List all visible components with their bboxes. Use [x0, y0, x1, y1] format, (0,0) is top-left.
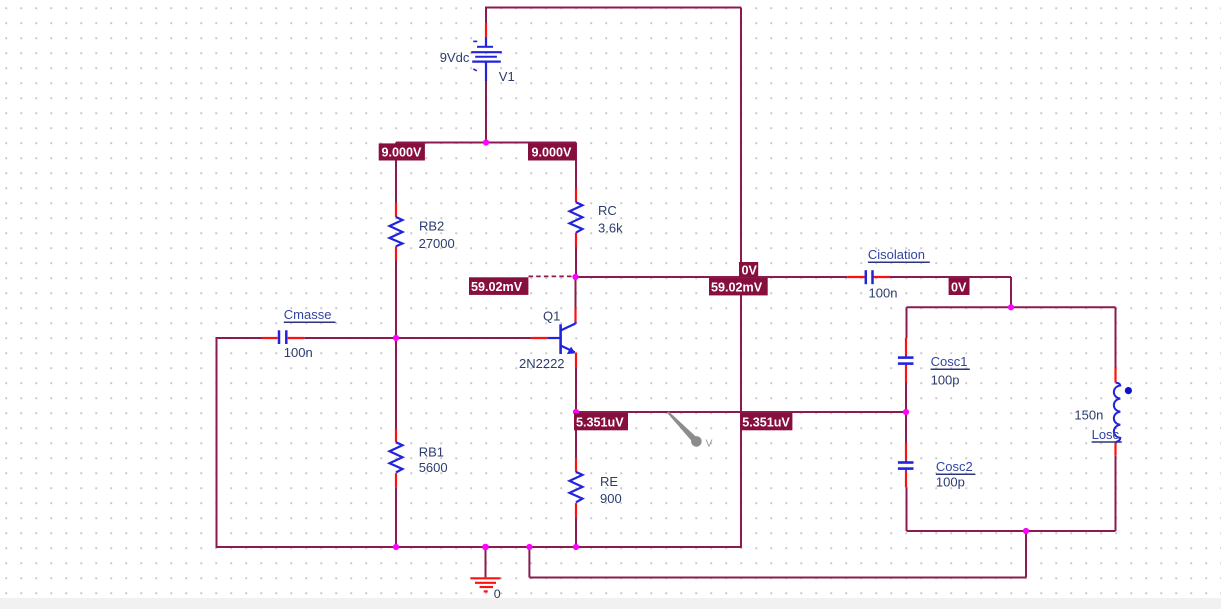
svg-text:9.000V: 9.000V [382, 146, 423, 160]
wire tank right above Losc [1115, 307, 1117, 368]
svg-text:100p: 100p [931, 373, 960, 388]
wire Cisolation right segment [890, 276, 1011, 278]
svg-text:RB1: RB1 [419, 445, 444, 460]
pin stub RC top [575, 189, 577, 203]
pin stub RB2 bottom [395, 246, 397, 260]
svg-text:27000: 27000 [419, 236, 455, 251]
resistor RE [570, 472, 583, 502]
pin stub RE bottom [575, 503, 577, 517]
wire RE lower lead [575, 517, 577, 547]
svg-text:150n: 150n [1074, 408, 1103, 423]
svg-text:RC: RC [598, 203, 617, 218]
svg-text:V1: V1 [499, 69, 515, 84]
pin stub Cosc1 bottom [905, 366, 907, 383]
pin stub Cisolation left [847, 276, 864, 278]
node RB1 at ground rail [393, 544, 399, 550]
wire tank left below Cosc2 [906, 487, 908, 531]
capacitor Cosc1 [898, 355, 914, 366]
svg-text:100n: 100n [284, 345, 313, 360]
svg-text:2N2222: 2N2222 [519, 356, 565, 371]
wire left loop vertical [216, 337, 218, 547]
svg-text:100n: 100n [869, 286, 898, 301]
wire collector output to Cisolation [576, 276, 847, 278]
bias label 5.351uV right [740, 413, 792, 430]
node tank top junction [1008, 304, 1014, 310]
transistor Q1 [548, 322, 576, 354]
wire RE upper lead [575, 412, 577, 459]
wire base from junction to Q1 [396, 337, 532, 339]
net alias Losc [1092, 427, 1122, 442]
node drop wire at rail [526, 544, 532, 550]
wire tank right below Losc [1115, 456, 1117, 531]
svg-text:5.351uV: 5.351uV [576, 415, 624, 429]
inductor Losc [1114, 383, 1120, 443]
resistor RB1 [390, 442, 403, 472]
svg-text:5.351uV: 5.351uV [742, 415, 790, 429]
wire bottom link to tank [529, 577, 1026, 579]
pin stub Cmasse right [288, 337, 305, 339]
bias label 59.02mV at crossing [709, 278, 768, 295]
node emitter junction [573, 409, 579, 415]
wire bottom ground rail [216, 546, 743, 548]
ground 0 symbol bar 4 [484, 590, 488, 592]
wire battery top stub [485, 7, 487, 24]
wire Cmasse right to base junction [304, 337, 396, 339]
pin stub Cosc1 top [905, 338, 907, 355]
inductor phase dot [1125, 387, 1132, 394]
svg-text:59.02mV: 59.02mV [471, 280, 523, 294]
wire emitter node to tank mid junction [576, 411, 907, 413]
wire tank left between mid junction and Cosc2 [905, 412, 907, 443]
bias label 59.02mV collector left [469, 277, 528, 295]
pin stub Cosc2 top [905, 443, 907, 461]
svg-text:Cmasse: Cmasse [284, 307, 332, 322]
node ground stub at rail [482, 544, 489, 551]
wire drop down from ground rail [528, 547, 530, 578]
battery V1 [471, 38, 502, 82]
pin stub Q1 emitter [575, 353, 577, 368]
svg-text:0V: 0V [742, 264, 758, 278]
svg-text:RE: RE [600, 474, 618, 489]
svg-text:0V: 0V [951, 280, 967, 294]
wire RB1 lower lead [395, 487, 397, 547]
capacitor Cisolation [866, 270, 873, 284]
pin stub RB2 top [395, 203, 397, 217]
wire battery bottom to 9V rail [485, 81, 487, 143]
svg-text:Cosc1: Cosc1 [931, 354, 968, 369]
pin stub RC bottom [575, 233, 577, 247]
wire tank left between Cosc1 and mid junction [905, 383, 907, 413]
node collector junction [572, 274, 578, 280]
wire top rail from battery to main loop right [486, 7, 741, 9]
wire dashed bias pointer to collector node [529, 275, 575, 277]
wire RB2 upper lead [395, 143, 397, 204]
ground 0 symbol bar 1 [470, 577, 500, 579]
net alias Cisolation [868, 247, 930, 262]
wire RB2 lower lead [395, 261, 397, 339]
bias label 0V right of Cisolation [949, 278, 970, 295]
svg-text:RB2: RB2 [419, 218, 444, 233]
pin stub Losc bottom [1114, 442, 1116, 456]
pin stub Q1 collector [574, 309, 576, 324]
bias label 9.000V right [528, 143, 576, 160]
node tank bottom junction [1023, 528, 1029, 534]
svg-text:Cosc2: Cosc2 [936, 459, 973, 474]
wire drop from Cisolation wire to tank top [1010, 277, 1012, 307]
wire up into tank bottom [1025, 531, 1027, 578]
wire Q1 emitter down to emitter node [575, 368, 577, 413]
pin stub V1 top [485, 23, 487, 38]
wire ground stub [485, 547, 487, 577]
net alias Cmasse [284, 307, 336, 322]
pin stub Cosc2 bottom [905, 471, 907, 487]
bias label 0V top at crossing [739, 262, 758, 278]
pin stub Cmasse left [262, 337, 278, 339]
wire main loop right vertical [740, 8, 742, 548]
svg-text:3.6k: 3.6k [598, 221, 623, 236]
pin stub Losc top [1114, 368, 1116, 383]
svg-text:Cisolation: Cisolation [868, 247, 925, 262]
svg-text:5600: 5600 [419, 460, 448, 475]
svg-text:9.000V: 9.000V [532, 146, 573, 160]
bias label 9.000V left [379, 143, 425, 160]
pin stub RB1 top [395, 429, 397, 442]
pin stub RB1 bottom [395, 473, 397, 487]
svg-text:Q1: Q1 [543, 309, 560, 324]
ground 0 symbol bar 2 [475, 582, 496, 584]
wire tank left above Cosc1 [906, 307, 908, 338]
wire RB1 upper lead [395, 338, 397, 429]
net alias Cosc2 [936, 459, 976, 474]
node base junction [393, 335, 399, 341]
wire collector node down to Q1 collector pin [575, 277, 577, 309]
pin stub Q1 base [532, 337, 548, 339]
svg-text:Losc: Losc [1092, 427, 1120, 442]
pin stub Cisolation right [874, 276, 891, 278]
svg-text:0: 0 [494, 587, 501, 601]
wire RC lower lead [575, 247, 577, 277]
capacitor Cosc2 [898, 461, 914, 472]
svg-text:100p: 100p [936, 475, 965, 490]
net alias Cosc1 [931, 354, 970, 369]
bias label 5.351uV left [574, 413, 628, 430]
svg-text:9Vdc: 9Vdc [440, 50, 470, 65]
ground 0 symbol bar 3 [480, 586, 493, 588]
wire tank bottom rail [907, 530, 1116, 532]
node RE at ground rail [573, 544, 579, 550]
capacitor Cmasse [279, 330, 286, 344]
resistor RB2 [390, 217, 403, 246]
resistor RC [570, 202, 583, 232]
wire 9V rail [396, 142, 576, 144]
wire Cmasse left [217, 337, 263, 339]
wire RC upper lead [575, 143, 577, 189]
wire tank top rail [907, 306, 1116, 308]
svg-text:900: 900 [600, 491, 622, 506]
probe voltage marker [667, 411, 712, 449]
pin stub RE top [575, 459, 577, 472]
node battery to 9V rail [483, 139, 489, 145]
node tank mid junction [903, 409, 909, 415]
svg-text:59.02mV: 59.02mV [711, 281, 763, 295]
svg-text:V: V [706, 438, 713, 450]
